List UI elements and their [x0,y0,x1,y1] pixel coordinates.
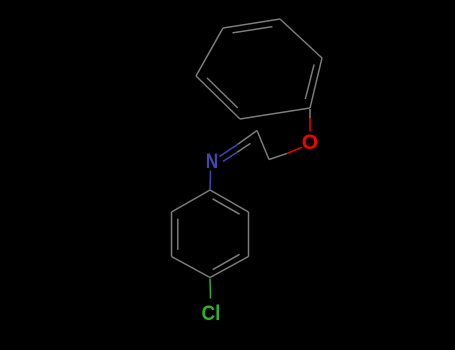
bond C2-O gray half [269,153,287,159]
wire: top ring inner double line B-C [233,27,273,33]
double bond C1=N main line gray half [238,131,257,145]
wire: top ring edge A-F (bottom-left) [196,76,240,119]
bond C2-O red half [287,147,302,153]
atom O [302,131,318,154]
wire: bottom ring edge T-TR [210,190,249,212]
wire: bottom ring inner double line BL-TL [177,219,179,250]
wire: bottom ring edge B-BL [172,257,211,278]
wire: bottom ring edge TL-T [172,190,211,212]
wire: top ring edge F-E (bottom) [240,108,310,119]
bond N-ring (blue, vertical) [209,171,212,190]
wire: top ring edge D-C (top-right) [280,19,322,58]
svg-text:N: N [206,151,218,174]
bond O-ring red half [309,118,311,132]
wire: bottom ring inner double line BR-B [213,254,240,269]
bond ring-Cl (green, vertical) [209,279,212,299]
wire: bottom ring edge BR-B [210,257,249,278]
wire: top ring edge C-B (top) [223,19,280,28]
bond O-ring gray half [309,109,311,118]
wire: bottom ring edge BL-TL (left) [171,212,173,257]
wire: bottom ring edge TR-BR (right) [248,212,250,257]
wire: bottom ring inner double line T-TR [213,199,240,214]
svg-text:O: O [302,131,318,154]
svg-text:Cl: Cl [202,302,221,325]
atom N [206,151,218,174]
atom Cl [202,302,221,325]
wire: top ring edge E-D (right) [310,58,322,108]
bottom chlorophenyl ring [172,190,249,278]
double bond C1=N inner line gray half [237,143,250,152]
double bond C1=N inner line blue half [223,152,237,161]
wire: top ring inner double line D-E [305,64,314,99]
wire: top ring inner double line F-A [207,78,238,108]
bond C1-C2 [257,131,269,160]
double bond C1=N main line blue half [220,144,239,157]
wire: top ring edge B-A (left) [196,28,223,76]
top phenyl ring [196,19,322,119]
